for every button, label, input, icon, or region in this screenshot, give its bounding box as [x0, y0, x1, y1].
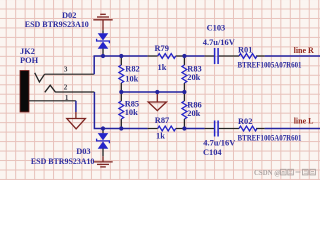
svg-text:line L: line L [294, 117, 314, 126]
svg-text:1k: 1k [156, 131, 165, 140]
wire jack pin2 to bottom rail [94, 92, 147, 129]
JK2 tip contact [35, 73, 45, 82]
svg-text:CSDN @: CSDN @ [254, 170, 281, 177]
capacitor C103 [215, 48, 219, 64]
resistor R86 [182, 101, 187, 119]
svg-text:C104: C104 [203, 148, 222, 157]
resistor R82 pins [120, 56, 122, 92]
diode D03 pin bottom [102, 149, 104, 157]
svg-text:R82: R82 [125, 64, 139, 73]
svg-text:1k: 1k [158, 63, 167, 72]
svg-text:10k: 10k [125, 108, 138, 117]
svg-text:20k: 20k [187, 109, 200, 118]
svg-text:POH: POH [20, 56, 39, 65]
wire bottom rail mid segment [184, 128, 204, 130]
resistor R83 pins [183, 56, 185, 92]
diode D03 TVS symbol [98, 133, 109, 149]
wire jack pin1 to ground [75, 101, 77, 112]
svg-text:10k: 10k [125, 75, 138, 84]
diode D02 TVS symbol [98, 33, 109, 49]
ground earth for D02 (flipped) [93, 14, 112, 30]
junction dots [101, 54, 187, 131]
wire bottom rail to line L [265, 128, 320, 130]
svg-text:R87: R87 [155, 116, 169, 125]
wire top rail mid segment [184, 55, 204, 57]
resistor R87 pins [148, 128, 185, 130]
svg-text:R79: R79 [155, 44, 169, 53]
connector JK2 body [20, 71, 29, 113]
wire top rail to line R [265, 55, 320, 57]
resistor R79 pins [148, 55, 185, 57]
resistor R86 pins [183, 92, 185, 129]
svg-text:4.7u/16V: 4.7u/16V [203, 38, 235, 47]
watermark [254, 169, 315, 177]
svg-text:R02: R02 [238, 117, 252, 126]
resistor R85 pins [120, 92, 122, 129]
JK2 pin 3 [45, 73, 95, 75]
svg-text:4.7u/16V: 4.7u/16V [203, 138, 235, 147]
svg-text:C103: C103 [207, 23, 226, 32]
wire jack pin3 to top rail [94, 56, 147, 74]
diode D02 pin bottom [102, 49, 104, 56]
resistor R85 [119, 101, 124, 119]
resistor R87 [158, 126, 176, 131]
svg-text:JK2: JK2 [20, 47, 35, 56]
svg-text:ESD BTR9S23A10: ESD BTR9S23A10 [31, 157, 95, 166]
svg-text:D02: D02 [62, 11, 76, 20]
JK2 pin 2 [56, 91, 95, 93]
JK2 ring contact [45, 85, 56, 92]
svg-text:2: 2 [64, 83, 68, 92]
diode D02 pin top [102, 30, 104, 33]
capacitor C103 pins [205, 55, 239, 57]
capacitor C104 pins [205, 128, 239, 130]
wire middle rail [121, 91, 184, 93]
svg-text:3: 3 [64, 64, 68, 73]
resistor R79 [158, 54, 176, 59]
ground triangle middle rail [148, 92, 166, 111]
JK2 pin 1 [29, 100, 76, 102]
svg-text:BTREF1005A07R601: BTREF1005A07R601 [238, 60, 302, 69]
resistor R01 pin right [256, 55, 265, 57]
svg-text:ESD BTR9S23A10: ESD BTR9S23A10 [25, 20, 89, 29]
svg-text:line R: line R [294, 46, 314, 55]
ground earth for D03 [93, 156, 112, 167]
svg-text:R01: R01 [238, 45, 252, 54]
resistor R01 [239, 54, 257, 59]
svg-text:20k: 20k [187, 73, 200, 82]
diode D03 pin top [102, 129, 104, 134]
resistor R02 pin right [256, 128, 265, 130]
capacitor C104 [215, 121, 219, 137]
resistor R82 [119, 65, 124, 83]
resistor R83 [182, 65, 187, 83]
ground triangle under jack [67, 112, 86, 129]
svg-text:D03: D03 [76, 147, 90, 156]
svg-text:1: 1 [65, 93, 69, 102]
svg-text:BTREF1005A07R601: BTREF1005A07R601 [238, 134, 302, 143]
resistor R02 [239, 126, 257, 131]
